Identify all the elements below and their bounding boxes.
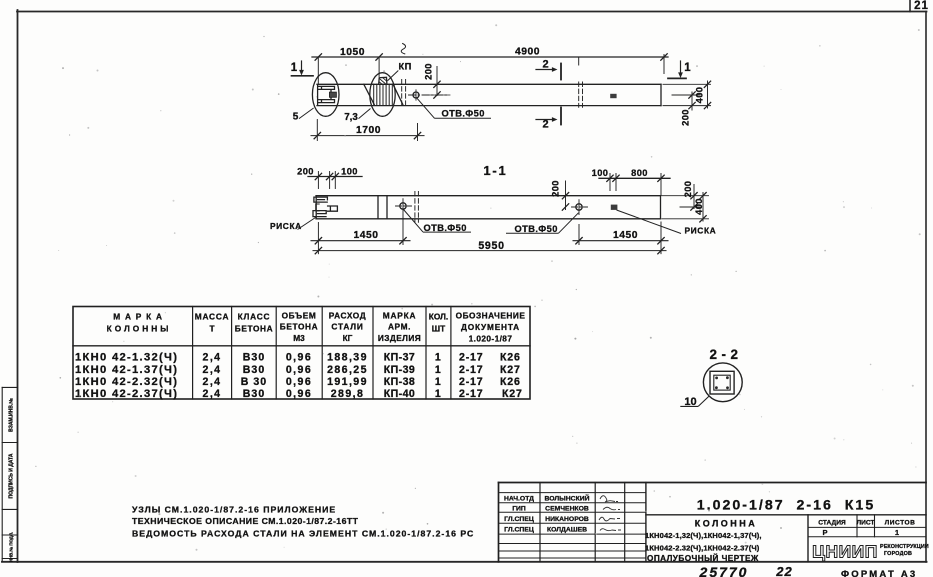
svg-text:0,96: 0,96	[286, 364, 312, 376]
svg-text:СТАЛИ: СТАЛИ	[331, 321, 363, 331]
svg-text:ВЗАМ.ИНВ.№: ВЗАМ.ИНВ.№	[9, 398, 15, 432]
dim 200 above hole2	[565, 181, 567, 210]
svg-text:2,4: 2,4	[203, 352, 222, 364]
title block row lines (signature part)	[499, 492, 646, 494]
svg-text:ДОКУМЕНТА: ДОКУМЕНТА	[461, 322, 520, 332]
svg-text:МАРКА: МАРКА	[113, 312, 167, 322]
table header divider	[73, 345, 530, 347]
svg-text:0,96: 0,96	[286, 376, 312, 388]
svg-text:НИКАНОРОВ: НИКАНОРОВ	[545, 516, 589, 523]
table column lines	[192, 307, 194, 400]
break squiggle	[401, 44, 405, 54]
svg-text:100: 100	[341, 166, 358, 176]
svg-text:ГЛ.СПЕЦ: ГЛ.СПЕЦ	[504, 527, 534, 534]
right-side dims of plan (400 / 200)	[663, 81, 711, 110]
svg-text:1КН0 42-2.32(Ч): 1КН0 42-2.32(Ч)	[75, 376, 178, 388]
dim 1050 / 4900 line	[312, 56, 668, 58]
table header texts	[107, 310, 526, 343]
svg-text:КП-40: КП-40	[384, 388, 415, 400]
svg-text:21: 21	[914, 0, 929, 12]
svg-text:СЕМЧЕНКОВ: СЕМЧЕНКОВ	[545, 506, 589, 513]
svg-text:286,25: 286,25	[327, 364, 368, 376]
svg-text:1450: 1450	[354, 230, 379, 241]
svg-text:М3: М3	[293, 333, 305, 343]
svg-text:Р: Р	[822, 528, 827, 537]
svg-text:ОПАЛУБОЧНЫЙ ЧЕРТЕЖ: ОПАЛУБОЧНЫЙ ЧЕРТЕЖ	[647, 552, 759, 563]
svg-text:1: 1	[435, 388, 442, 400]
title block outer frame	[499, 482, 927, 484]
svg-text:1КН042-1,32(Ч),1КН042-1,37(Ч),: 1КН042-1,32(Ч),1КН042-1,37(Ч),	[645, 531, 762, 540]
svg-text:ОБОЗНАЧЕНИЕ: ОБОЗНАЧЕНИЕ	[456, 310, 526, 320]
svg-text:РЕКОНСТРУКЦИИ: РЕКОНСТРУКЦИИ	[880, 544, 929, 550]
svg-text:200: 200	[681, 109, 691, 126]
svg-text:25770: 25770	[699, 564, 749, 577]
svg-text:1: 1	[895, 528, 899, 537]
svg-text:НАЧ.ОТД: НАЧ.ОТД	[504, 496, 534, 503]
column cross-section inner square	[714, 375, 730, 390]
table outer frame	[73, 307, 530, 400]
left end C-hook (1-1)	[316, 204, 320, 211]
svg-text:1КН0 42-1.37(Ч): 1КН0 42-1.37(Ч)	[75, 364, 178, 376]
svg-text:1050: 1050	[340, 47, 365, 58]
svg-text:РАСХОД: РАСХОД	[329, 310, 366, 320]
svg-text:200: 200	[424, 63, 434, 80]
svg-text:1.020-1/87: 1.020-1/87	[469, 333, 513, 343]
frame bottom border	[2, 561, 927, 563]
svg-text:РИСКА: РИСКА	[270, 221, 302, 231]
svg-text:ВОЛЫНСКИЙ: ВОЛЫНСКИЙ	[544, 494, 589, 503]
frame top border	[17, 11, 927, 13]
svg-text:1.020-1/87 2-16 К15: 1.020-1/87 2-16 К15	[697, 498, 875, 514]
section circle 2-2	[703, 363, 742, 402]
svg-text:ЛИСТОВ: ЛИСТОВ	[885, 520, 916, 527]
small bracket (1-1)	[328, 206, 338, 211]
svg-text:КП-39: КП-39	[384, 364, 415, 376]
svg-text:5: 5	[293, 112, 299, 123]
svg-text:2,4: 2,4	[203, 388, 222, 400]
svg-text:УЗЛЫ СМ.1.020-1/87.2-16 ПРИЛОЖ: УЗЛЫ СМ.1.020-1/87.2-16 ПРИЛОЖЕНИЕ	[132, 504, 336, 514]
svg-text:К27: К27	[502, 388, 523, 400]
console corbel above bar	[379, 77, 387, 84]
svg-text:2-17: 2-17	[459, 376, 483, 388]
page number box divider	[909, 0, 911, 12]
section marker 1 (left)	[292, 61, 314, 76]
left end top plate (1-1)	[314, 197, 328, 202]
svg-text:ОБЪЕМ: ОБЪЕМ	[282, 310, 317, 320]
svg-text:200: 200	[551, 180, 561, 197]
svg-text:1: 1	[435, 376, 442, 388]
svg-text:2,4: 2,4	[203, 364, 222, 376]
svg-text:800: 800	[631, 168, 648, 178]
svg-text:2: 2	[542, 119, 548, 131]
hole otv f50 #1 (1-1)	[400, 203, 406, 209]
svg-text:ТЕХНИЧЕСКОЕ ОПИСАНИЕ СМ.1.020-: ТЕХНИЧЕСКОЕ ОПИСАНИЕ СМ.1.020-1/87.2-16Т…	[132, 516, 359, 526]
svg-text:РИСКА: РИСКА	[685, 225, 717, 235]
svg-text:1КН042-2.32(Ч),1КН042-2.37(Ч): 1КН042-2.32(Ч),1КН042-2.37(Ч)	[645, 543, 760, 552]
dim 200 at hole (plan)	[424, 67, 450, 99]
svg-text:1700: 1700	[356, 125, 381, 136]
handwritten signatures	[599, 496, 621, 531]
embedded plate mark (1-1)	[611, 205, 618, 210]
embedded anchor square	[329, 92, 336, 97]
joint dashes mid bar	[579, 82, 583, 107]
svg-text:БЕТОНА: БЕТОНА	[280, 321, 318, 331]
svg-text:КГ: КГ	[343, 333, 353, 343]
section marker 2 (bottom)	[536, 108, 561, 125]
stadia cell divider	[807, 515, 809, 562]
svg-text:КП-37: КП-37	[384, 352, 415, 364]
embedded plate mark (plan)	[610, 94, 616, 98]
svg-text:22: 22	[775, 564, 792, 577]
svg-text:МАРКА: МАРКА	[383, 310, 417, 320]
detail bubble 5	[312, 73, 339, 117]
svg-text:К27: К27	[500, 364, 521, 376]
svg-text:1-1: 1-1	[483, 163, 507, 178]
svg-text:В 30: В 30	[241, 376, 267, 388]
svg-text:2-2: 2-2	[709, 347, 742, 362]
svg-text:5950: 5950	[478, 240, 504, 252]
svg-text:100: 100	[592, 168, 609, 178]
svg-text:ГОРОДОВ: ГОРОДОВ	[884, 551, 912, 557]
console hatch in bar	[374, 84, 393, 104]
svg-text:В30: В30	[243, 364, 265, 376]
svg-text:КЛАСС: КЛАСС	[238, 312, 271, 322]
svg-text:ГИП: ГИП	[512, 506, 526, 513]
svg-text:2: 2	[542, 59, 548, 71]
console slope lines	[364, 84, 374, 104]
column cross-section outer square	[710, 371, 734, 394]
svg-text:200: 200	[297, 166, 314, 176]
frame left border	[17, 10, 19, 562]
svg-text:В30: В30	[243, 388, 265, 400]
svg-text:ОТВ.Ф50: ОТВ.Ф50	[442, 109, 485, 119]
svg-text:0,96: 0,96	[286, 388, 312, 400]
hole otv f50 (plan)	[413, 92, 419, 98]
detail bubble 7,3	[370, 73, 395, 117]
svg-text:КОЛОННА: КОЛОННА	[695, 519, 758, 529]
svg-text:ВЕДОМОСТЬ РАСХОДА СТАЛИ НА ЭЛ: ВЕДОМОСТЬ РАСХОДА СТАЛИ НА ЭЛЕМЕНТ СМ.1.…	[132, 528, 474, 538]
svg-text:КОЛ.: КОЛ.	[429, 312, 448, 322]
svg-text:ПОДПИСЬ И ДАТА: ПОДПИСЬ И ДАТА	[9, 453, 15, 498]
svg-text:ИНВ.№ ПОДЛ.: ИНВ.№ ПОДЛ.	[9, 532, 14, 562]
column body plan	[317, 83, 661, 85]
end detail plates (plan left end)	[318, 86, 335, 91]
svg-text:КП: КП	[399, 62, 412, 72]
right-side dims (1-1): 200 / 400	[662, 195, 709, 197]
svg-text:188,39: 188,39	[327, 352, 368, 364]
svg-text:КП-38: КП-38	[384, 376, 415, 388]
svg-text:7,3: 7,3	[344, 112, 358, 123]
transverse joint lines	[377, 196, 379, 219]
svg-text:2-17: 2-17	[459, 352, 483, 364]
svg-text:КОЛОННЫ: КОЛОННЫ	[107, 323, 172, 333]
column body section 1-1	[316, 195, 661, 197]
dims 100/800 top-right (1-1)	[599, 177, 670, 179]
svg-text:289,8: 289,8	[331, 388, 365, 400]
svg-text:ИЗДЕЛИЯ: ИЗДЕЛИЯ	[378, 333, 421, 343]
svg-text:191,99: 191,99	[327, 376, 368, 388]
rebar dots	[715, 376, 729, 389]
svg-text:0,96: 0,96	[286, 352, 312, 364]
doc number band divider	[646, 514, 926, 516]
svg-text:ШТ: ШТ	[432, 323, 445, 333]
svg-text:2,4: 2,4	[203, 376, 222, 388]
svg-text:1: 1	[291, 62, 298, 74]
svg-text:БЕТОНА: БЕТОНА	[235, 323, 273, 333]
section marker 2 (top)	[536, 64, 561, 80]
section marker 1 (right)	[668, 61, 686, 78]
svg-text:2-17: 2-17	[459, 364, 483, 376]
axis dashes (1-1)	[415, 192, 419, 223]
signature names	[544, 494, 589, 534]
svg-text:400: 400	[695, 87, 705, 104]
svg-text:2-17: 2-17	[459, 388, 483, 400]
svg-text:АРМ.: АРМ.	[388, 321, 411, 331]
svg-text:1КН0 42-1.32(Ч): 1КН0 42-1.32(Ч)	[75, 352, 178, 364]
frame right border	[925, 12, 927, 563]
hole otv f50 #2 (1-1)	[576, 204, 582, 210]
svg-text:ЛИСТ: ЛИСТ	[857, 520, 875, 527]
dim 1700	[311, 120, 424, 141]
svg-text:КОЛДАШЕВ: КОЛДАШЕВ	[547, 527, 587, 534]
svg-text:Т: Т	[209, 323, 214, 333]
dim 5950 overall	[313, 250, 666, 252]
svg-text:1450: 1450	[613, 230, 638, 241]
left end bottom hook (1-1)	[313, 211, 326, 217]
axis dashes at console	[402, 80, 406, 108]
signature labels	[504, 496, 534, 534]
svg-text:1: 1	[435, 352, 442, 364]
svg-text:ФОРМАТ А3: ФОРМАТ А3	[841, 569, 917, 577]
svg-text:ЦНИИП: ЦНИИП	[812, 542, 878, 562]
dims 200/100 top-left (1-1)	[308, 176, 362, 178]
svg-text:К26: К26	[500, 376, 521, 388]
svg-text:400: 400	[694, 198, 704, 215]
svg-text:ГЛ.СПЕЦ: ГЛ.СПЕЦ	[504, 516, 534, 523]
svg-text:В30: В30	[243, 352, 265, 364]
svg-text:К26: К26	[500, 352, 521, 364]
title block column lines (signature part)	[539, 483, 541, 562]
svg-text:МАССА: МАССА	[195, 312, 229, 322]
svg-text:1: 1	[435, 364, 442, 376]
dim 1450 (left)	[311, 240, 410, 242]
svg-text:1КН0 42-2.37(Ч): 1КН0 42-2.37(Ч)	[75, 388, 178, 400]
svg-text:СТАДИЯ: СТАДИЯ	[818, 520, 846, 527]
svg-text:4900: 4900	[515, 47, 540, 58]
svg-text:200: 200	[683, 181, 693, 198]
svg-text:1: 1	[684, 62, 691, 74]
dim 1450 (right)	[573, 240, 668, 242]
table body rows	[75, 352, 178, 401]
